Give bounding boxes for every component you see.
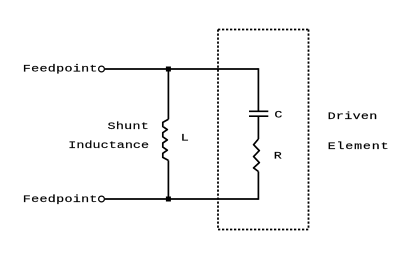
dotted enclosure box (Driven Element): top edge	[218, 29, 309, 31]
terminal circle (top feedpoint)	[99, 66, 105, 72]
terminal circle (bottom feedpoint)	[99, 196, 105, 202]
capacitor C top plate	[249, 110, 268, 112]
svg-text:C: C	[274, 109, 282, 121]
wire inductor branch bottom segment	[167, 160, 169, 199]
svg-text:Inductance: Inductance	[68, 140, 149, 152]
svg-text:Driven: Driven	[328, 111, 378, 123]
svg-text:Feedpoint: Feedpoint	[23, 63, 98, 75]
svg-text:L: L	[181, 132, 189, 144]
svg-text:Feedpoint: Feedpoint	[23, 194, 98, 206]
wire bottom horizontal	[105, 198, 259, 200]
junction bottom node	[166, 197, 171, 202]
wire top horizontal	[105, 68, 259, 70]
resistor R zigzag	[254, 139, 260, 172]
svg-text:Element: Element	[328, 141, 390, 153]
capacitor C bottom plate	[249, 115, 268, 117]
inductor L coil	[163, 119, 169, 160]
wire inductor branch top segment	[167, 69, 169, 119]
wire between capacitor and resistor	[257, 116, 259, 139]
svg-text:R: R	[274, 150, 282, 162]
wire resistor to bottom corner	[257, 172, 259, 200]
junction top node	[166, 67, 171, 72]
dotted enclosure box: right edge	[308, 30, 310, 230]
wire C-R branch: corner down to capacitor	[257, 68, 259, 111]
svg-text:Shunt: Shunt	[108, 121, 150, 133]
dotted enclosure box: left edge	[217, 30, 219, 230]
dotted enclosure box: bottom edge	[218, 229, 309, 231]
